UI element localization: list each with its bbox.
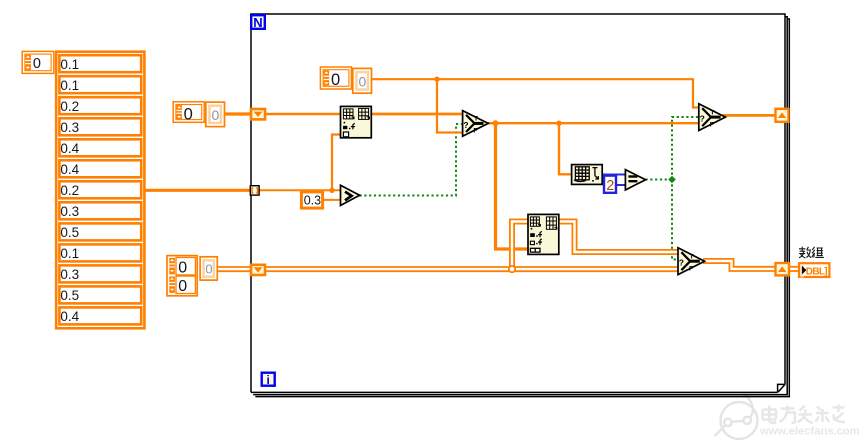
wire: 0.3 constant to greater-node bottom input <box>323 199 341 201</box>
watermark logo circle <box>715 394 758 440</box>
for-loop main border <box>251 14 785 392</box>
wire: replace-array-subset output to select1 t input <box>371 113 463 116</box>
stacked sheet line 3 <box>255 19 789 397</box>
svg-text:?: ? <box>700 114 705 124</box>
tunnel: bottom-left auto-index tunnel (down arrow) <box>251 265 265 275</box>
tunnel: left indexing tunnel [] <box>250 186 259 195</box>
watermark text 电子发烧友 <box>763 405 846 424</box>
wire: 2D branch up into replace-array-subset2 (double line) <box>512 222 529 267</box>
select node 3 (top right) <box>699 104 726 131</box>
1D array constant with index (outside loop, mid-left) <box>173 102 224 127</box>
array indicator terminal [DBL] <box>799 263 829 278</box>
svg-text:0.1: 0.1 <box>60 246 79 261</box>
2D array constant with two indexes (outside loop, bottom-left) <box>167 256 217 296</box>
wire: tunnel to array indicator (double line) <box>789 266 799 272</box>
svg-text:DBL]: DBL] <box>806 266 827 277</box>
svg-text:0: 0 <box>184 105 193 123</box>
svg-text:0.3: 0.3 <box>304 194 321 208</box>
node: junction dot on greater input wire <box>329 188 334 193</box>
wire: select2 output to bottom-right tunnel (double line) <box>703 261 776 269</box>
svg-text:0.4: 0.4 <box>60 141 79 156</box>
tunnel: bottom-right output tunnel (up arrow) <box>776 263 790 275</box>
svg-text:0: 0 <box>359 73 367 89</box>
wire: replace-array-subset2 output to select2 t input (double line) <box>559 222 679 253</box>
replace array subset node 2 <box>528 214 559 254</box>
svg-text:0.3: 0.3 <box>60 204 79 219</box>
node: green wire junction diamond <box>668 176 676 184</box>
wire: select3 output to top-right tunnel <box>722 114 776 117</box>
svg-text:N: N <box>253 15 262 30</box>
svg-text:0: 0 <box>212 107 220 123</box>
wire: 1D array constant to left tunnel <box>225 112 251 115</box>
wire: select1 output long run to select3 f input <box>487 122 699 124</box>
svg-text:0.1: 0.1 <box>60 57 79 72</box>
svg-text:0: 0 <box>205 262 212 277</box>
array constant: shell and cells <box>56 52 144 329</box>
svg-text:0.3: 0.3 <box>60 120 79 135</box>
watermark text www.elecfans.com <box>759 426 860 438</box>
svg-text:0.3: 0.3 <box>60 267 79 282</box>
svg-text:0.1: 0.1 <box>60 78 79 93</box>
wire: blue constant 2 to equal node f input <box>616 184 626 186</box>
wire: branch down to replace-array-subset2 element input <box>496 123 529 249</box>
svg-text:0.5: 0.5 <box>60 225 79 240</box>
node: junction dot at select1 output <box>493 120 499 126</box>
svg-text:T: T <box>710 109 714 116</box>
svg-text:0: 0 <box>178 259 187 276</box>
fold flap at bottom-right corner <box>778 384 786 392</box>
wire: green boolean dotted equal-node to junction <box>646 179 673 181</box>
array constant: index box <box>22 51 54 73</box>
svg-text:T: T <box>474 115 478 122</box>
svg-text:F: F <box>473 128 477 135</box>
array node (grid with T arrow) <box>572 165 603 185</box>
replace array subset node 1 <box>341 106 372 137</box>
wire: 2D array constant to bottom-left tunnel (double line) <box>217 266 251 272</box>
svg-text:0: 0 <box>331 71 340 89</box>
stacked sheet line 2 <box>253 17 787 395</box>
svg-text:2: 2 <box>606 178 614 194</box>
wire: branch down to array-node input <box>559 123 572 174</box>
node: junction dot at x559 <box>556 121 561 126</box>
wire: green boolean dotted junction up to select3 s input <box>672 117 699 180</box>
N terminal <box>251 15 265 30</box>
select node 1 <box>463 111 489 137</box>
svg-text:F: F <box>710 121 714 128</box>
label 数组 (drawn strokes) <box>799 247 824 258</box>
numeric constant 0.3 <box>301 192 322 208</box>
wire: branch down from top run to select1 f input <box>437 79 463 132</box>
svg-text:0.4: 0.4 <box>60 162 79 177</box>
svg-text:?: ? <box>463 120 468 130</box>
select node 2 <box>678 248 705 275</box>
svg-text:?: ? <box>679 258 684 268</box>
greater? comparison node <box>341 185 360 205</box>
numeric constant 0 with index (inside loop, top) <box>320 67 371 93</box>
wire: green boolean dotted greater-node to select1 s input <box>360 124 464 196</box>
svg-text:0.2: 0.2 <box>60 99 79 114</box>
wire: left tunnel to replace-array-subset node <box>265 113 341 115</box>
wire: numeric constant 0 top run to right bend into select3 <box>372 79 699 107</box>
svg-text:0.2: 0.2 <box>60 183 79 198</box>
svg-text:0: 0 <box>33 56 41 72</box>
equal? comparison node <box>625 170 645 190</box>
node: junction dot on top constant run <box>434 77 439 82</box>
i terminal <box>262 373 275 387</box>
wire: tunnel to greater-node top input (scalar) <box>259 189 342 191</box>
for-loop frame (stacked pages) <box>251 14 789 397</box>
numeric constant 2 (blue) <box>604 176 616 195</box>
svg-text:F: F <box>689 265 693 272</box>
svg-text:T: T <box>690 253 694 260</box>
wire: array constant to indexing tunnel <box>145 189 251 192</box>
svg-text:i: i <box>267 373 270 387</box>
svg-text:0: 0 <box>178 278 187 295</box>
svg-text:www.elecfans.com: www.elecfans.com <box>759 426 860 438</box>
svg-text:0.5: 0.5 <box>60 288 79 303</box>
wire: green boolean dotted junction down to select2 s input <box>672 180 679 260</box>
wire: blue i32 array-node output to equal node <box>602 174 626 176</box>
wire: junction up to replace-array-subset index input <box>332 135 341 191</box>
tunnel: top-right output tunnel (up arrow) <box>776 109 789 122</box>
node: open junction on 2D wire <box>509 266 515 272</box>
wire: bottom-left tunnel long run to select2 f input (double line) <box>265 266 679 272</box>
tunnel: left auto-index tunnel (down arrow) <box>251 109 265 119</box>
svg-text:0.4: 0.4 <box>60 309 79 324</box>
